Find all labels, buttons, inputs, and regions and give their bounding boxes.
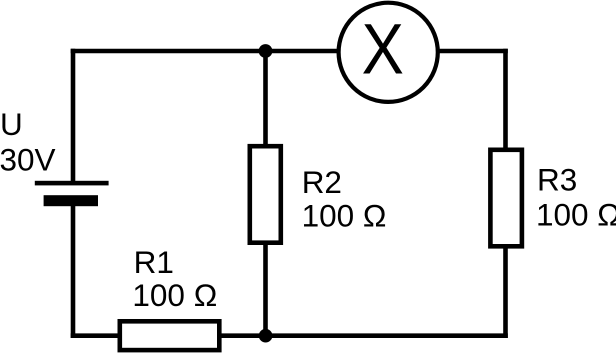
- wire node A down to R2 pin 1: [263, 51, 268, 146]
- svg-text:R1: R1: [134, 244, 174, 280]
- wire lamp right terminal to top-right corner: [437, 49, 508, 54]
- wire node A to lamp left terminal: [266, 49, 341, 54]
- wire left vertical from top-left corner down to battery top plate: [71, 49, 76, 183]
- wire right vertical from top-right corner down to R3 pin 1: [503, 49, 508, 149]
- svg-text:100 Ω: 100 Ω: [302, 198, 387, 234]
- wire R3 pin 2 down to bottom-right corner: [503, 247, 508, 338]
- svg-text:U: U: [0, 106, 23, 142]
- wire R2 pin 2 down to bottom node B: [263, 243, 268, 336]
- svg-text:100 Ω: 100 Ω: [132, 277, 217, 313]
- battery G1 bottom plate (short thick, negative): [44, 195, 98, 206]
- battery G1 top plate (long thin, positive): [35, 181, 109, 186]
- resistor R1 body (horizontal): [120, 321, 220, 350]
- svg-text:R3: R3: [537, 162, 577, 198]
- node B junction dot (bottom): [259, 329, 273, 343]
- wire bottom-left corner to R1 pin 1: [71, 333, 119, 338]
- resistor R2 body (vertical): [250, 146, 281, 243]
- wire bottom node B to bottom-right corner: [266, 333, 508, 338]
- svg-text:X: X: [362, 10, 404, 89]
- svg-text:R2: R2: [302, 164, 342, 200]
- node A junction dot (top): [259, 44, 273, 58]
- svg-text:100 Ω: 100 Ω: [536, 197, 616, 233]
- resistor R3 body (vertical): [490, 150, 522, 247]
- wire R1 pin 2 to bottom node B: [220, 333, 266, 338]
- svg-text:30V: 30V: [0, 141, 56, 177]
- wire battery bottom plate down to bottom-left corner: [71, 201, 76, 338]
- wire top-left horizontal (battery + to node A): [71, 49, 266, 54]
- lamp X1 circle body: [339, 3, 438, 102]
